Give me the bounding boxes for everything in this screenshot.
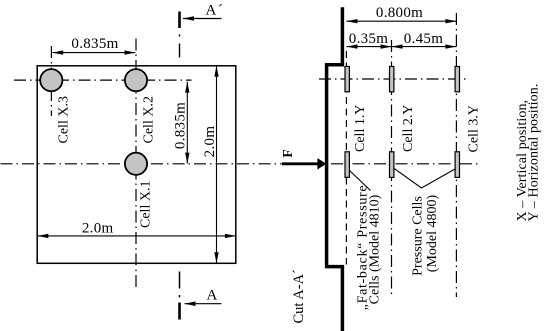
concrete slab plan outline (2.0m x 2.0m square) xyxy=(37,66,236,263)
svg-text:Cells (Model 4810): Cells (Model 4810) xyxy=(368,194,383,304)
svg-text:Pressure Cells: Pressure Cells xyxy=(411,196,426,276)
leader lines to pressure cells label xyxy=(394,168,455,188)
dimension 0.800m xyxy=(346,20,456,22)
cell 1.Y upper sensor bar xyxy=(345,67,349,92)
vertical axis line through cell X.3 xyxy=(50,46,52,116)
cell 1.Y centre sensor bar xyxy=(345,152,349,178)
dash-dot axis line through cell 2.Y column xyxy=(391,40,393,297)
section cut line A' (top tick) xyxy=(178,12,181,29)
svg-text:0.45m: 0.45m xyxy=(404,31,443,47)
dimension 0.835m (top, horizontal) xyxy=(52,52,135,54)
cell 2.Y centre sensor bar xyxy=(390,152,394,178)
svg-text:A: A xyxy=(207,288,218,304)
dimension 0.835m (vertical, between rows) xyxy=(186,82,188,164)
svg-text:Cell 3.Y: Cell 3.Y xyxy=(467,105,482,152)
dimension 2.0m (vertical, right side of square) xyxy=(216,66,218,263)
svg-text:2.0m: 2.0m xyxy=(82,221,114,237)
horizontal centre line (section view) xyxy=(331,163,478,165)
cell 3.Y centre sensor bar xyxy=(455,152,459,178)
svg-text:0.835m: 0.835m xyxy=(173,102,189,149)
horizontal centre line (through Cell X.1 row, runs to wall) xyxy=(1,163,282,165)
svg-text:Cell 1.Y: Cell 1.Y xyxy=(353,105,368,152)
horizontal axis line through cells X.3 / X.2 xyxy=(14,79,192,81)
svg-text:Cut A-A´: Cut A-A´ xyxy=(291,269,307,323)
vertical axis line through cells X.2 / X.1 xyxy=(135,39,137,292)
svg-text:Cell X.1: Cell X.1 xyxy=(139,181,154,228)
cell 2.Y upper sensor bar xyxy=(390,67,394,92)
dash-dot axis line through cell 3.Y column xyxy=(455,13,457,297)
svg-text:(Model 4800): (Model 4800) xyxy=(425,194,440,272)
svg-text:Cell 2.Y: Cell 2.Y xyxy=(401,105,416,152)
arrow A' xyxy=(183,18,222,20)
leader line to fat-back cell label xyxy=(350,171,371,191)
section cut line A (bottom tick) xyxy=(179,272,181,289)
svg-text:Cell X.3: Cell X.3 xyxy=(57,96,72,143)
svg-text:0.35m: 0.35m xyxy=(349,31,388,47)
arrow A xyxy=(185,303,222,305)
dashed axis line through cell 1.Y column xyxy=(345,51,347,265)
svg-text:2.0m: 2.0m xyxy=(202,126,218,158)
cell X.3 (circle) xyxy=(40,69,62,91)
svg-text:A´: A´ xyxy=(206,3,223,19)
dimension 2.0m (bottom, horizontal) xyxy=(38,235,236,237)
cell 3.Y upper sensor bar xyxy=(455,67,459,92)
svg-text:0.800m: 0.800m xyxy=(376,5,423,21)
retaining wall profile (section A-A') xyxy=(327,7,343,331)
dimension 0.35m xyxy=(346,46,391,48)
svg-text:Y – Horizontal position.: Y – Horizontal position. xyxy=(527,84,542,222)
dimension 0.45m xyxy=(392,46,457,48)
svg-text:F: F xyxy=(280,149,295,157)
horizontal axis line (upper cell row, section view) xyxy=(319,78,469,80)
cell X.1 (circle) xyxy=(125,153,147,175)
svg-text:Cell X.2: Cell X.2 xyxy=(142,96,157,143)
svg-text:0.835m: 0.835m xyxy=(71,36,118,52)
force arrow F xyxy=(282,162,318,165)
cell X.2 (circle) xyxy=(125,69,147,91)
